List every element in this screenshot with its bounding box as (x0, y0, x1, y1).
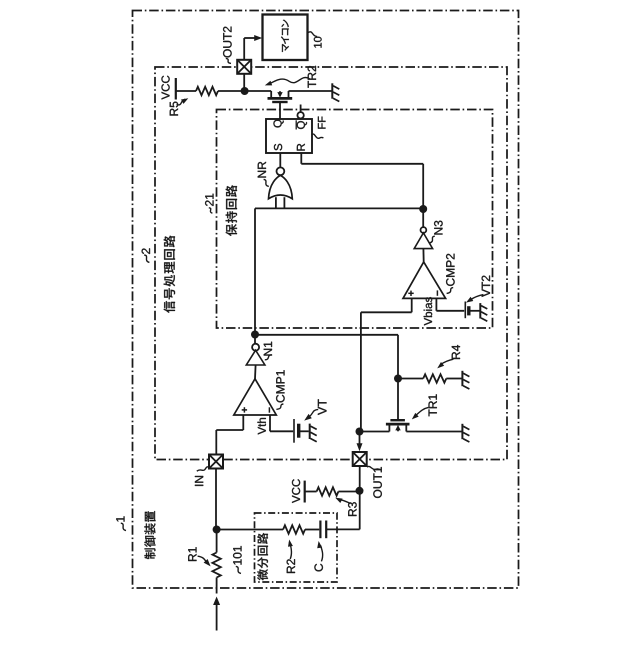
wire N1 to TR1 gate (255, 335, 398, 420)
microcontroller box 10 (263, 15, 308, 61)
label kanji 保持回路 (226, 185, 237, 236)
label CMP2 with pointer (446, 254, 454, 294)
terminal IN (209, 455, 223, 469)
power VCC at R3 (292, 479, 305, 503)
terminal OUT1 (353, 452, 367, 466)
wire OUT1 down (359, 466, 361, 529)
wire VCC to R3 (305, 491, 317, 493)
wire N1 to inverter (254, 338, 256, 344)
label 10 with pointer (308, 32, 322, 48)
resistor R2 (283, 525, 305, 533)
wire inverter to CMP2 (422, 249, 424, 262)
node N3 junction (419, 205, 427, 213)
wire CMP1 plus to IN (216, 415, 243, 455)
label 2 with pointer (142, 248, 150, 262)
wire CMP2 minus input (436, 298, 464, 310)
label VT2 with arrow (466, 276, 490, 303)
label 1 with pointer (116, 516, 126, 530)
label kanji 信号処理回路 (164, 235, 175, 312)
label N1 with pointer (264, 342, 272, 360)
label C with arrow (314, 541, 322, 571)
wire CMP2 plus input Vbias (361, 298, 412, 431)
wire node to R2 (217, 529, 284, 531)
inverted output bubble on FF Qbar (297, 105, 303, 119)
node at R3/OUT1 (356, 487, 364, 495)
control device box 1 (dash-dot border) (133, 11, 519, 589)
label 101 with pointer (233, 546, 241, 573)
wire VCC to R5 (176, 90, 196, 92)
differentiation circuit box 101 (dash-dot border) (255, 513, 338, 582)
ground at VT (310, 424, 317, 442)
signal processing circuit box 2 (dash-dot border) (155, 67, 507, 460)
ground at R4 (462, 371, 469, 389)
wire CMP1 minus input (270, 415, 293, 431)
wire NOR inputs (255, 207, 423, 209)
label R2 with arrow (287, 540, 295, 574)
label R1 with arrow (188, 547, 210, 566)
wire node to inverter N3 (422, 212, 424, 227)
flip-flop FF (266, 119, 312, 153)
wire FF S to NOR output (279, 153, 281, 167)
wire NOR left input to N1 (254, 208, 256, 334)
inverter at N3 (414, 227, 432, 249)
wire TR2 drain to ground (289, 90, 332, 92)
op-amp CMP1 (234, 379, 276, 415)
label TR1 with arrow (412, 394, 437, 419)
input signal arrow (213, 597, 220, 631)
label kanji 微分回路 (257, 533, 268, 580)
label IN with pointer (195, 467, 209, 486)
label VT with arrow (304, 399, 326, 420)
resistor R4 (423, 374, 446, 382)
wire R2 to C (305, 529, 319, 531)
node at R4/TR1 gate (394, 375, 402, 383)
ground at TR1 (462, 424, 469, 442)
wire R5 to node (218, 90, 271, 92)
label TR2 with arrow (265, 66, 316, 88)
battery VT (294, 419, 309, 443)
label OUT1 with pointer (367, 466, 382, 497)
wire FF R to N3 node (301, 153, 423, 206)
wire R3 to node (338, 491, 359, 493)
label FF with pointer (312, 117, 326, 139)
node N1 junction (251, 331, 259, 339)
resistor R1 (212, 553, 220, 578)
label N3 with pointer (429, 221, 442, 243)
wire OUT2 to microcontroller with arrow (244, 35, 262, 60)
node at R1/R2 (213, 526, 221, 534)
terminal OUT2 (237, 60, 251, 74)
wire OUT2 to node (243, 74, 245, 91)
label R5 with arrow (170, 98, 189, 115)
label R4 with arrow (437, 345, 460, 368)
node at OUT2/R5/TR2 (241, 87, 249, 95)
label Vth (257, 418, 265, 434)
wire R4 to ground (446, 378, 461, 380)
holding circuit box 21 (dash-dot border) (217, 110, 493, 329)
wire R1 down (216, 578, 218, 594)
wire inverter to CMP1 (254, 365, 257, 379)
op-amp CMP2 (403, 262, 446, 299)
label OUT2 with pointer (223, 27, 231, 64)
wire node to OUT1 with arrow (357, 434, 363, 451)
wire TR1 source to OUT1 node (360, 431, 390, 433)
nor gate NR (269, 167, 293, 208)
label NR with pointer (258, 162, 269, 187)
wire C to OUT1 leg (326, 528, 360, 530)
battery VT2 (465, 302, 479, 319)
wire IN down to node (215, 469, 217, 530)
capacitor C (320, 521, 326, 539)
resistor R3 (317, 487, 339, 495)
label CMP1 with pointer (276, 370, 284, 409)
resistor R5 (196, 87, 218, 95)
wire node to R1 (216, 530, 218, 553)
label kanji 制御装置 (144, 511, 155, 559)
transistor TR1 (386, 420, 410, 431)
power VCC top (161, 76, 175, 100)
wire TR1 drain to ground (406, 431, 461, 433)
ground at TR2 (332, 83, 339, 101)
label Vbias (424, 297, 432, 325)
transistor TR2 (268, 91, 293, 119)
node at OUT1/TR1 (356, 428, 364, 436)
ground at VT2 (480, 303, 487, 321)
inverter at N1 (246, 344, 265, 365)
label R3 with arrow (335, 498, 356, 516)
label 21 with pointer (205, 194, 213, 213)
wire node to R4 (398, 378, 423, 380)
